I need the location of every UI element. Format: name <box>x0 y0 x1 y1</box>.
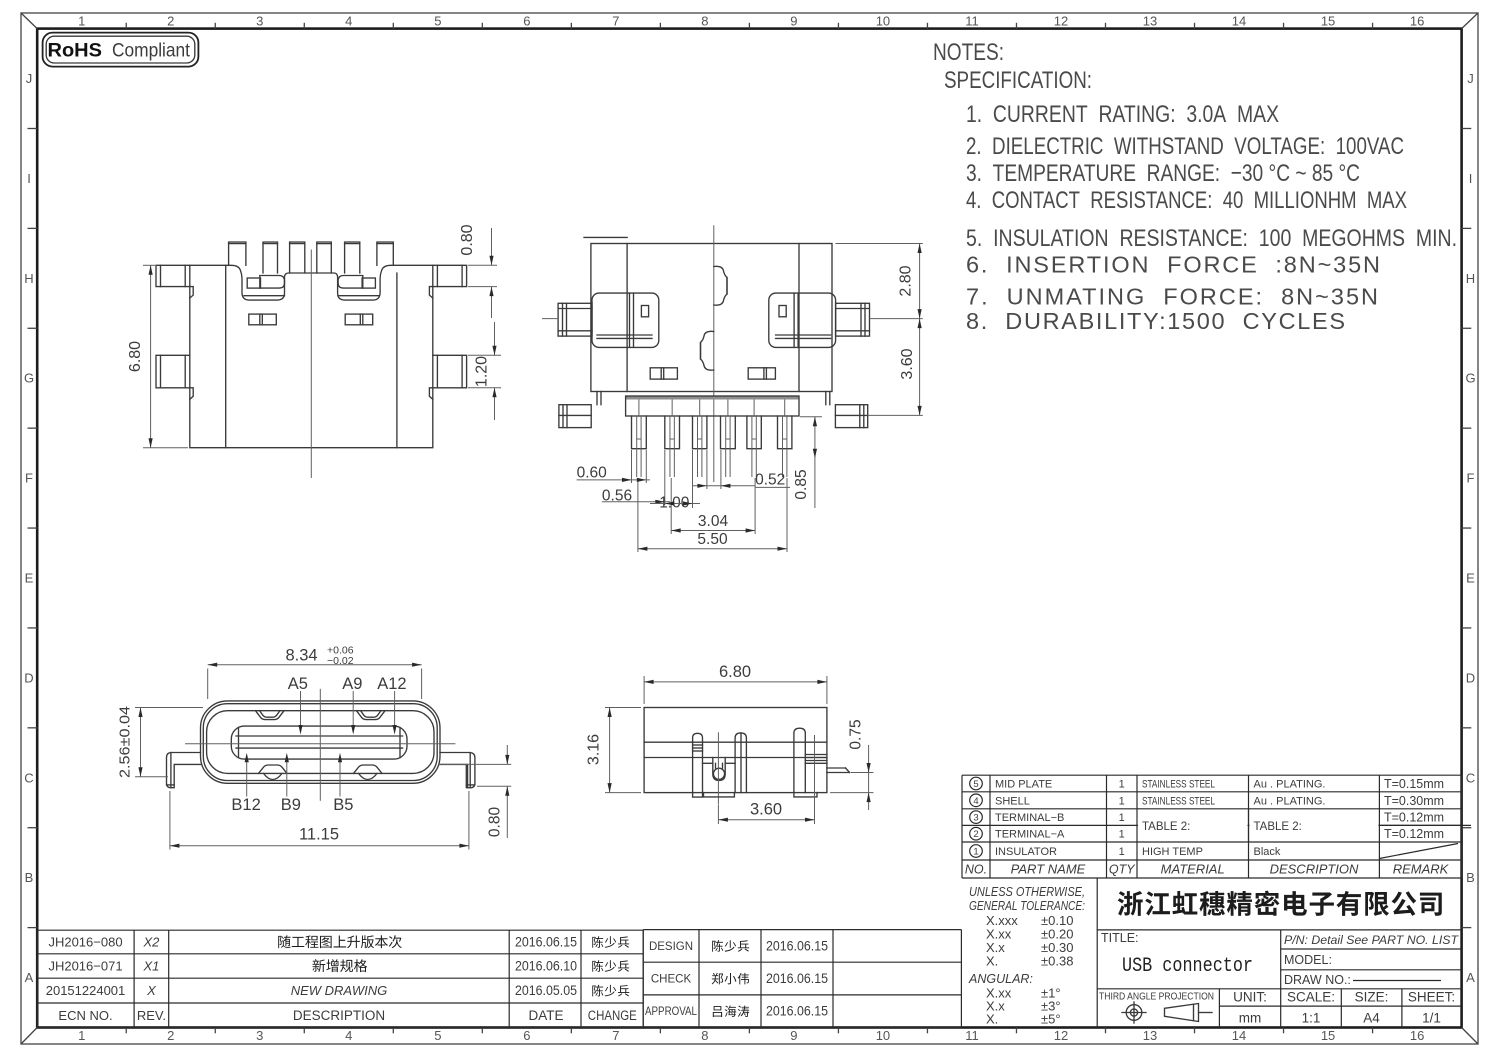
svg-text:TABLE 2:: TABLE 2: <box>1142 821 1190 833</box>
svg-text:HIGH TEMP: HIGH TEMP <box>1142 846 1203 858</box>
svg-text:INSULATOR: INSULATOR <box>995 846 1057 858</box>
svg-text:A: A <box>25 970 34 985</box>
svg-text:15: 15 <box>1321 1028 1335 1043</box>
svg-text:QTY: QTY <box>1109 863 1136 877</box>
svg-text:T=0.12mm: T=0.12mm <box>1384 827 1444 841</box>
svg-text:1: 1 <box>1119 779 1125 791</box>
svg-text:T=0.15mm: T=0.15mm <box>1384 777 1444 791</box>
view1 shell window cutouts <box>249 314 276 325</box>
svg-text:±5°: ±5° <box>1041 1012 1061 1027</box>
svg-text:0.80: 0.80 <box>459 224 476 255</box>
svg-text:mm: mm <box>1239 1011 1262 1026</box>
view1 dimension 6.80 <box>143 264 155 266</box>
view2 right solder wing <box>769 293 836 347</box>
svg-text:X: X <box>146 983 157 998</box>
svg-text:3. TEMPERATURE RANGE: −30 °: 3. TEMPERATURE RANGE: −30 °C ~ 85 °C <box>966 160 1360 187</box>
svg-text:F: F <box>25 471 33 486</box>
view4 contact posts <box>693 733 703 792</box>
view1 dimension 1.20 <box>468 354 501 356</box>
svg-text:TITLE:: TITLE: <box>1101 931 1139 945</box>
view3 dimension 11.15 <box>169 791 171 850</box>
svg-text:B: B <box>1466 870 1475 885</box>
view3 left mounting leg <box>167 753 201 788</box>
svg-text:J: J <box>1467 71 1474 86</box>
svg-text:7: 7 <box>612 14 619 29</box>
view2 terminal pins <box>632 416 647 449</box>
view2 dimension 0.85 <box>800 416 822 418</box>
view1 tab hook steps <box>190 287 193 299</box>
svg-text:DESCRIPTION: DESCRIPTION <box>293 1008 385 1023</box>
view1 left mounting tabs <box>156 265 190 286</box>
svg-text:E: E <box>25 570 34 585</box>
svg-text:B5: B5 <box>333 796 353 814</box>
view2 bottom solder tabs <box>559 405 591 428</box>
svg-text:14: 14 <box>1232 1028 1246 1043</box>
view3 center lines <box>185 743 455 745</box>
svg-text:DATE: DATE <box>528 1008 563 1023</box>
svg-text:6: 6 <box>523 14 530 29</box>
view4 solder tail <box>827 767 846 769</box>
view2 mid-plate cutout upper <box>714 266 727 305</box>
svg-text:14: 14 <box>1232 14 1246 29</box>
svg-text:X1: X1 <box>142 959 159 974</box>
svg-text:16: 16 <box>1410 1028 1424 1043</box>
svg-text:TERMINAL−A: TERMINAL−A <box>995 829 1065 841</box>
svg-text:10: 10 <box>876 1028 890 1043</box>
svg-text:9: 9 <box>790 1028 797 1043</box>
view2 mid-plate cutout lower <box>701 331 714 370</box>
svg-text:2016.06.15: 2016.06.15 <box>515 935 577 950</box>
svg-text:7: 7 <box>612 1028 619 1043</box>
svg-text:MID PLATE: MID PLATE <box>995 779 1052 791</box>
svg-text:5. INSULATION RESISTANCE: 1: 5. INSULATION RESISTANCE: 100 MEGOHMS MI… <box>966 225 1457 252</box>
svg-text:15: 15 <box>1321 14 1335 29</box>
svg-text:USB connector: USB connector <box>1122 955 1253 978</box>
svg-text:A5: A5 <box>288 675 308 693</box>
svg-text:1: 1 <box>1119 846 1125 858</box>
view3 dimension 8.34 with tolerance <box>207 669 209 700</box>
svg-text:GENERAL TOLERANCE:: GENERAL TOLERANCE: <box>969 899 1085 913</box>
view2 terminal housing block <box>626 396 799 400</box>
svg-text:7. UNMATING FORCE: 8N~35N: 7. UNMATING FORCE: 8N~35N <box>966 284 1378 310</box>
view4 center line <box>717 732 719 804</box>
svg-text:2: 2 <box>167 14 174 29</box>
svg-text:0.52: 0.52 <box>755 472 785 489</box>
svg-text:P/N: Detail See PART NO. LIST: P/N: Detail See PART NO. LIST <box>1284 933 1459 947</box>
revision history table <box>37 929 643 931</box>
svg-text:1: 1 <box>78 14 85 29</box>
svg-text:5.50: 5.50 <box>697 531 728 548</box>
svg-text:REMARK: REMARK <box>1393 862 1450 877</box>
svg-text:A4: A4 <box>1363 1011 1380 1026</box>
svg-text:8. DURABILITY:1500 CYCLES: 8. DURABILITY:1500 CYCLES <box>966 308 1345 334</box>
view2 shell window cutouts <box>650 368 677 379</box>
view4 dimension 6.80 <box>643 676 645 704</box>
svg-text:16: 16 <box>1410 14 1424 29</box>
svg-text:6.80: 6.80 <box>719 663 751 681</box>
view3 dimension 2.56±0.04 <box>135 707 203 709</box>
view1 vertical center line <box>310 250 312 479</box>
svg-text:F: F <box>1467 471 1475 486</box>
svg-text:SCALE:: SCALE: <box>1287 990 1335 1005</box>
svg-text:11: 11 <box>965 14 979 29</box>
svg-text:1: 1 <box>1119 812 1125 824</box>
view2 dimension 3.04 <box>671 530 755 532</box>
svg-text:0.75: 0.75 <box>848 719 865 749</box>
parts list table <box>962 774 1462 776</box>
svg-text:I: I <box>1469 171 1473 186</box>
view3 outer shell <box>201 701 441 783</box>
svg-text:T=0.12mm: T=0.12mm <box>1384 811 1444 825</box>
svg-text:C: C <box>24 770 33 785</box>
svg-text:JH2016−080: JH2016−080 <box>48 935 122 950</box>
svg-text:1: 1 <box>1119 795 1125 807</box>
svg-text:1/1: 1/1 <box>1422 1011 1441 1026</box>
view2 vertical center line <box>713 225 715 482</box>
svg-text:11: 11 <box>965 1028 979 1043</box>
view2 dimension 5.50 <box>638 548 787 550</box>
svg-text:SHEET:: SHEET: <box>1408 990 1455 1005</box>
view3 tongue <box>231 726 407 759</box>
svg-text:4. CONTACT RESISTANCE: 40: 4. CONTACT RESISTANCE: 40 MILLIONHM MAX <box>966 187 1407 214</box>
svg-text:REV.: REV. <box>137 1008 166 1023</box>
svg-text:PART NAME: PART NAME <box>1011 862 1086 877</box>
svg-text:8: 8 <box>701 1028 708 1043</box>
svg-text:CHECK: CHECK <box>651 974 692 986</box>
svg-text:Compliant: Compliant <box>112 40 191 62</box>
view3 right mounting leg <box>440 753 475 788</box>
svg-text:13: 13 <box>1143 1028 1157 1043</box>
svg-text:1: 1 <box>78 1028 85 1043</box>
svg-text:A: A <box>1466 970 1475 985</box>
view4 right contact stack <box>805 754 827 756</box>
svg-text:1:1: 1:1 <box>1302 1011 1321 1026</box>
svg-text:G: G <box>24 371 34 386</box>
svg-text:8: 8 <box>701 14 708 29</box>
view2 dimension 0.52 <box>692 485 755 487</box>
svg-text:3.60: 3.60 <box>899 348 916 379</box>
view4 center retention feature <box>713 758 725 781</box>
svg-text:3.04: 3.04 <box>698 513 729 530</box>
view3 top latch notches <box>256 711 285 720</box>
svg-text:TABLE 2:: TABLE 2: <box>1254 821 1302 833</box>
svg-text:2.56±0.04: 2.56±0.04 <box>117 706 134 778</box>
svg-text:3: 3 <box>256 14 263 29</box>
svg-text:6: 6 <box>523 1028 530 1043</box>
svg-text:4: 4 <box>973 796 978 807</box>
svg-text:1: 1 <box>1119 829 1125 841</box>
svg-text:2: 2 <box>973 829 978 840</box>
svg-text:SPECIFICATION:: SPECIFICATION: <box>944 67 1092 94</box>
svg-text:H: H <box>1466 271 1475 286</box>
title block <box>1096 878 1098 1028</box>
svg-text:DRAW NO.:: DRAW NO.: <box>1284 973 1351 987</box>
svg-text:A9: A9 <box>342 675 362 693</box>
svg-text:3.16: 3.16 <box>586 734 603 765</box>
svg-text:−0.02: −0.02 <box>327 655 354 667</box>
svg-text:Au . PLATING.: Au . PLATING. <box>1254 795 1326 807</box>
svg-text:2: 2 <box>167 1028 174 1043</box>
svg-text:C: C <box>1466 770 1475 785</box>
svg-text:T=0.30mm: T=0.30mm <box>1384 794 1444 808</box>
svg-text:9: 9 <box>790 14 797 29</box>
border zone ticks top/bottom <box>125 23 127 29</box>
svg-text:2016.06.15: 2016.06.15 <box>766 1004 828 1019</box>
svg-text:3: 3 <box>973 813 978 824</box>
svg-text:UNIT:: UNIT: <box>1233 990 1267 1005</box>
view4 dimension 3.60 <box>717 805 719 824</box>
svg-text:10: 10 <box>876 14 890 29</box>
svg-text:5: 5 <box>434 1028 441 1043</box>
view1 latch bay details <box>247 278 260 288</box>
svg-text:20151224001: 20151224001 <box>46 983 126 998</box>
svg-text:DESCRIPTION: DESCRIPTION <box>1270 862 1359 877</box>
view1 dimension 0.80 <box>468 264 497 266</box>
svg-text:STAINLESS STEEL: STAINLESS STEEL <box>1142 795 1215 807</box>
svg-text:CHANGE: CHANGE <box>588 1008 637 1023</box>
view2 dimension extension lines <box>631 450 633 483</box>
svg-text:MATERIAL: MATERIAL <box>1161 862 1225 877</box>
svg-text:SHELL: SHELL <box>995 795 1030 807</box>
svg-text:12: 12 <box>1054 14 1068 29</box>
view2 shell body <box>591 244 832 392</box>
svg-text:2.80: 2.80 <box>898 265 915 296</box>
svg-text:B9: B9 <box>281 796 301 814</box>
svg-text:4: 4 <box>345 14 352 29</box>
svg-text:6.80: 6.80 <box>127 341 144 372</box>
svg-text:3: 3 <box>256 1028 263 1043</box>
view3 bottom latch notches <box>259 765 288 773</box>
svg-text:2016.05.05: 2016.05.05 <box>515 983 577 998</box>
svg-text:X.: X. <box>986 1012 998 1027</box>
svg-text:11.15: 11.15 <box>299 826 339 844</box>
svg-text:ECN NO.: ECN NO. <box>58 1008 112 1023</box>
svg-text:8.34: 8.34 <box>286 647 318 665</box>
svg-text:Au . PLATING.: Au . PLATING. <box>1254 779 1326 791</box>
approval table <box>643 929 961 931</box>
svg-text:X2: X2 <box>142 935 160 950</box>
corner diagonals <box>21 13 37 29</box>
view4 dimension 0.75 <box>851 772 874 774</box>
svg-text:STAINLESS STEEL: STAINLESS STEEL <box>1142 779 1215 791</box>
svg-text:Black: Black <box>1254 846 1281 858</box>
svg-text:J: J <box>26 71 33 86</box>
svg-text:1.20: 1.20 <box>474 356 491 387</box>
svg-text:2016.06.15: 2016.06.15 <box>766 971 828 986</box>
svg-text:0.85: 0.85 <box>793 469 810 499</box>
svg-text:NEW DRAWING: NEW DRAWING <box>291 983 388 998</box>
svg-text:1. CURRENT RATING: 3.0A MA: 1. CURRENT RATING: 3.0A MAX <box>966 101 1279 128</box>
svg-text:2016.06.10: 2016.06.10 <box>515 959 577 974</box>
view4 body <box>644 708 827 793</box>
svg-text:RoHS: RoHS <box>48 40 103 62</box>
svg-text:TERMINAL−B: TERMINAL−B <box>995 812 1064 824</box>
view1 inner shell seam lines <box>225 265 227 447</box>
view4 dimension 3.16 <box>605 707 641 709</box>
svg-text:5: 5 <box>434 14 441 29</box>
view1 top contact prongs <box>229 242 246 265</box>
svg-text:12: 12 <box>1054 1028 1068 1043</box>
svg-text:0.60: 0.60 <box>577 465 608 482</box>
svg-text:X.: X. <box>986 954 998 969</box>
svg-text:UNLESS OTHERWISE,: UNLESS OTHERWISE, <box>969 885 1085 899</box>
svg-text:1: 1 <box>973 847 978 858</box>
svg-text:NO.: NO. <box>965 863 987 877</box>
company name (CJK) <box>1118 891 1143 916</box>
view2 left solder wing <box>592 293 659 347</box>
svg-text:D: D <box>24 670 33 685</box>
RoHS Compliant badge <box>43 33 199 67</box>
view3 dimension 0.80 <box>439 763 512 765</box>
view1 shell body outline <box>190 265 433 447</box>
svg-text:DESIGN: DESIGN <box>649 941 693 953</box>
svg-text:4: 4 <box>345 1028 352 1043</box>
svg-text:E: E <box>1466 570 1475 585</box>
svg-text:B: B <box>25 870 34 885</box>
svg-text:APPROVAL: APPROVAL <box>645 1006 698 1018</box>
svg-text:±0.38: ±0.38 <box>1041 954 1073 969</box>
svg-text:JH2016−071: JH2016−071 <box>48 959 122 974</box>
svg-text:MODEL:: MODEL: <box>1284 953 1332 967</box>
svg-text:A12: A12 <box>377 675 406 693</box>
view4 bottom feet <box>693 793 703 798</box>
svg-text:2. DIELECTRIC WITHSTAND VOL: 2. DIELECTRIC WITHSTAND VOLTAGE: 100VAC <box>966 133 1404 160</box>
svg-text:3.60: 3.60 <box>750 801 782 819</box>
svg-text:NOTES:: NOTES: <box>933 39 1004 66</box>
svg-text:0.80: 0.80 <box>487 807 504 838</box>
svg-text:THIRD ANGLE PROJECTION: THIRD ANGLE PROJECTION <box>1099 991 1214 1003</box>
border zone ticks left/right <box>28 127 38 129</box>
svg-text:D: D <box>1466 670 1475 685</box>
svg-text:6. INSERTION FORCE :8N~35N: 6. INSERTION FORCE :8N~35N <box>966 252 1380 278</box>
svg-text:ANGULAR:: ANGULAR: <box>968 972 1033 986</box>
svg-text:SIZE:: SIZE: <box>1355 990 1389 1005</box>
svg-text:5: 5 <box>973 779 978 790</box>
svg-text:B12: B12 <box>231 796 260 814</box>
svg-text:I: I <box>27 171 31 186</box>
view2 dimensions 2.80 / 3.60 <box>835 243 922 245</box>
view1 right mounting tabs <box>433 265 467 286</box>
svg-text:2016.06.15: 2016.06.15 <box>766 938 828 953</box>
svg-text:13: 13 <box>1143 14 1157 29</box>
svg-text:H: H <box>24 271 33 286</box>
svg-text:G: G <box>1465 371 1475 386</box>
